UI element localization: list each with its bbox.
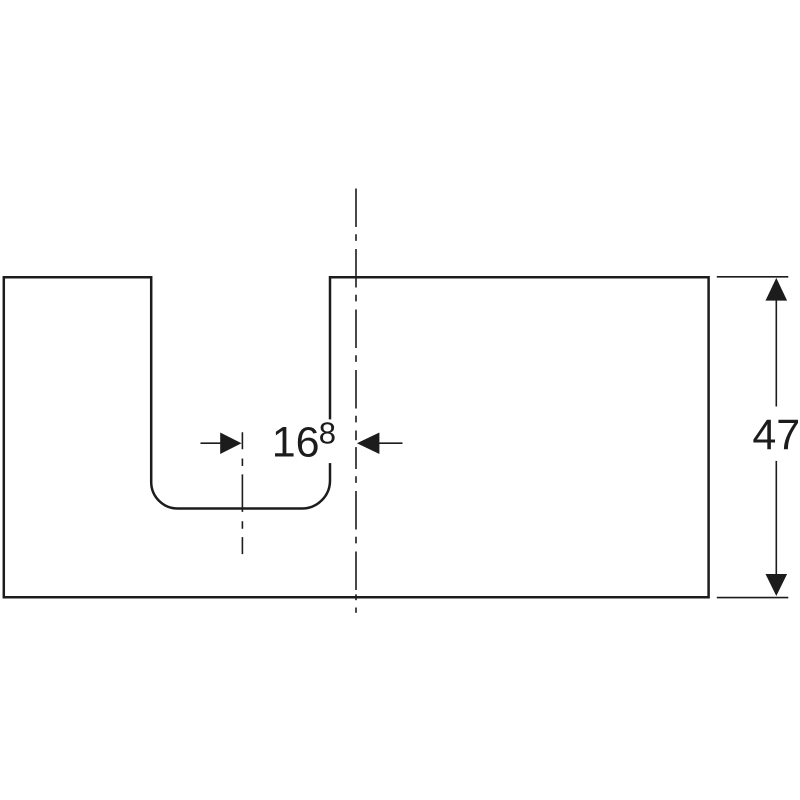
dimension 16-8 left arrowhead (points right) [220, 432, 241, 454]
panel outline with U-shaped cutout [4, 277, 709, 597]
right dimension top extension line [717, 276, 789, 278]
svg-text:8: 8 [319, 416, 336, 451]
right dimension top arrowhead (points up) [766, 278, 788, 301]
right dimension line lower segment [775, 461, 777, 575]
right dimension bottom extension line [717, 597, 789, 599]
main centerline end stub [355, 608, 357, 613]
cutout centerline (dash-dot) [241, 432, 243, 554]
centerline gap at right arrow tip [355, 440, 357, 447]
right dimension line upper segment [775, 299, 777, 407]
svg-text:47: 47 [752, 411, 800, 459]
main centerline end dot [355, 594, 357, 600]
dimension 16-8 right arrow tail [379, 442, 403, 444]
dimension 16-8 left arrow tail [201, 442, 222, 444]
gap mask on cutout right edge behind superscript text [324, 419, 336, 463]
right dimension bottom arrowhead (points down) [766, 574, 788, 596]
main vertical centerline (dash-dot) [355, 189, 357, 591]
dimension 16-8 right arrowhead (points left) [357, 432, 380, 454]
svg-text:16: 16 [272, 419, 320, 467]
